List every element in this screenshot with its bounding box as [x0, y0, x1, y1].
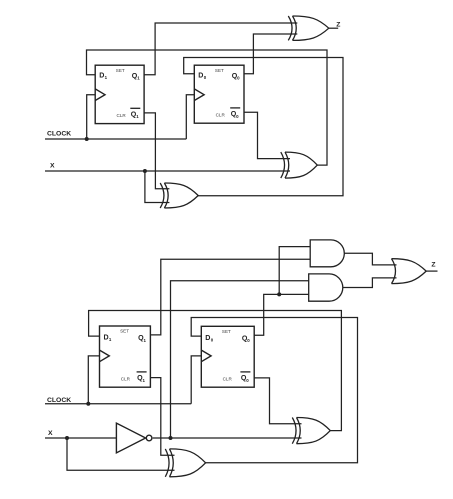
svg-text:SET: SET [215, 68, 224, 73]
node: X junction (top circuit) [143, 169, 147, 173]
and gate U4: AND1 Q1*Q0 (bottom circuit) [310, 240, 344, 267]
node: X-bar junction on inverter output (bottom circuit) [169, 436, 173, 440]
wire: X branch to lower-left XOR lower input (top circuit) [145, 171, 170, 203]
wire: top XOR output to Z (top circuit) [329, 27, 338, 29]
svg-text:CLR: CLR [117, 113, 127, 118]
svg-text:D: D [99, 71, 104, 79]
svg-text:SET: SET [222, 329, 231, 334]
svg-text:X: X [50, 163, 55, 170]
xor gate U9: bottom XOR driving D0 (bottom circuit) [165, 449, 205, 477]
wire: bottom XOR output feedback to D0 input (net D0, bottom circuit) [191, 318, 357, 463]
wire: Q0-bar output to right XOR upper input (top circuit) [244, 112, 290, 158]
svg-text:X: X [48, 430, 53, 437]
wire: Q1 output to AND1 lower input (net Q1, bottom circuit) [150, 259, 310, 335]
svg-text:Z: Z [431, 262, 435, 269]
xor gate U2: right XOR driving D1 (top circuit) [281, 152, 318, 178]
wire: Q0-bar output to right XOR upper input (bottom circuit) [254, 378, 301, 424]
node: X junction (bottom circuit) [65, 436, 69, 440]
wire: X input line to inverter input (bottom circuit) [45, 437, 116, 439]
wire: Q1 output to top XOR upper input (net Q1, top circuit) [144, 23, 297, 75]
svg-text:Z: Z [336, 21, 340, 28]
wire: CLOCK line (top circuit) [45, 138, 186, 140]
wire: CLOCK branch to FF D1 clock input (bottom circuit) [88, 356, 99, 404]
flip-flop D0 (bottom circuit, D-type with SET/CLR) [201, 326, 254, 387]
node: CLOCK junction (top circuit) [85, 137, 89, 141]
node X label (top circuit) [50, 163, 55, 170]
node X label (bottom circuit) [48, 430, 53, 437]
wire: inverter output branch to AND2 upper input (net X-bar, bottom circuit) [171, 281, 309, 438]
node: CLOCK junction (bottom circuit) [86, 402, 90, 406]
wire: CLOCK line (bottom circuit) [45, 403, 191, 405]
wire: Q1-bar output to lower-left XOR upper input (top circuit) [144, 113, 169, 189]
svg-text:CLR: CLR [216, 112, 226, 117]
wire: right XOR output feedback to D1 input (net D1, bottom circuit) [89, 311, 342, 431]
wire: lower-left XOR output feedback to D0 input (net D0, top circuit) [184, 58, 343, 196]
svg-text:D: D [205, 334, 210, 342]
wire: Q1-bar output to bottom XOR upper input (bottom circuit) [150, 378, 174, 456]
svg-text:D: D [198, 71, 203, 79]
wire: Q0 output to top XOR lower input (net Q0, top circuit) [244, 34, 297, 74]
wire: Q0 branch to AND1 upper input (bottom circuit) [279, 247, 310, 295]
svg-text:CLR: CLR [223, 376, 233, 381]
wire: Q0 output to AND gates (net Q0, bottom circuit) [254, 294, 309, 335]
flip-flop D0 (top circuit, D-type with SET/CLR) [194, 65, 244, 123]
xor gate U1: Z output gate (top circuit) [288, 16, 329, 40]
node: Q0 net junction (bottom circuit) [277, 292, 281, 296]
svg-text:SET: SET [116, 68, 125, 73]
wire: X input line to right XOR lower input (top circuit) [45, 170, 290, 172]
flip-flop D1 (top circuit, D-type with SET/CLR) [95, 65, 144, 123]
inverter U7: X inverter (bottom circuit) [116, 423, 152, 453]
xor gate U8: right XOR driving D1 (bottom circuit) [292, 418, 330, 444]
node CLOCK label (top circuit) [47, 131, 71, 138]
wire: CLOCK branch to FF D0 clock input (bottom circuit) [191, 356, 201, 404]
wire: CLOCK branch to FF D0 clock input (top circuit) [186, 95, 194, 139]
wire: AND1 output to OR gate upper input (bottom circuit) [344, 253, 396, 265]
svg-text:SET: SET [120, 329, 129, 334]
wire: X branch to bottom XOR lower input (bottom circuit) [67, 438, 175, 470]
xor gate U3: lower-left XOR driving D0 (top circuit) [160, 183, 198, 208]
wire: inverter output to right XOR lower input (net X-bar, bottom circuit) [153, 437, 302, 439]
wire: CLOCK branch to FF D1 clock input (top circuit) [87, 95, 96, 139]
node CLOCK label (bottom circuit) [47, 397, 71, 404]
and gate U5: AND2 Xbar*Q0 (bottom circuit) [309, 274, 343, 301]
node Z (top circuit output label) [336, 21, 340, 28]
node Z (bottom circuit output label) [431, 262, 435, 269]
wire: AND2 output to OR gate lower input (bottom circuit) [343, 278, 397, 288]
wire: OR gate output to Z (bottom circuit) [426, 270, 437, 272]
flip-flop D1 (bottom circuit, D-type with SET/CLR) [100, 326, 151, 387]
svg-text:D: D [104, 334, 109, 342]
svg-text:CLR: CLR [121, 376, 131, 381]
svg-text:CLOCK: CLOCK [47, 131, 71, 138]
wire: right XOR output feedback to D1 input (net D1, top circuit) [87, 50, 328, 165]
or gate U6: Z output gate (bottom circuit) [392, 259, 427, 284]
